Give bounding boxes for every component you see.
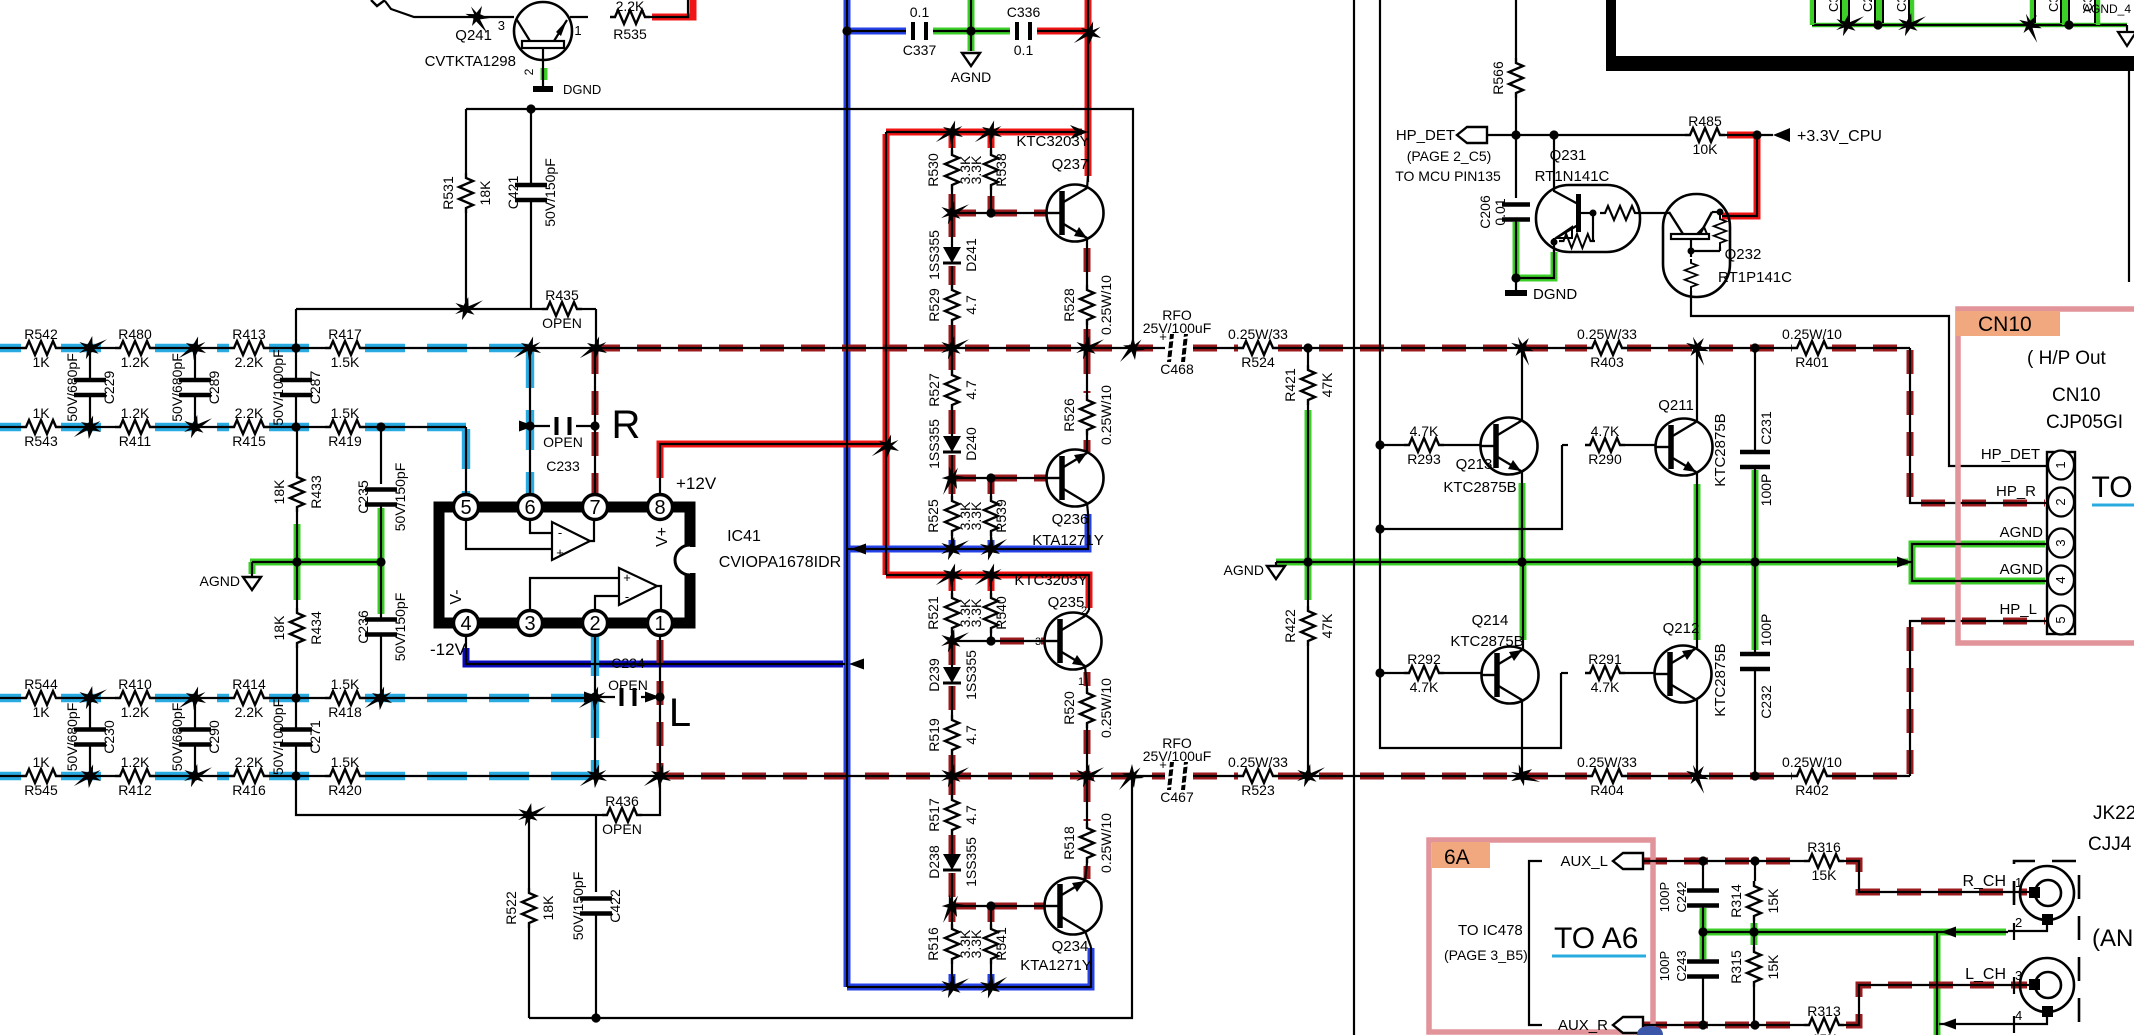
- wire Q235 emitter to R520: [1085, 666, 1087, 688]
- green highlight below R421: [1305, 410, 1312, 562]
- arrow R422 row4: [1293, 759, 1325, 792]
- red highlight rail top: [886, 129, 1082, 136]
- junction dots C233 on risers: [525, 421, 599, 430]
- svg-text:(AN: (AN: [2092, 925, 2133, 952]
- green highlight above C236: [378, 562, 385, 614]
- label KTC3203Y Q235: [1014, 572, 1087, 589]
- dark red dashed to L_CH: [1846, 985, 2027, 1025]
- wire base node Q236: [952, 477, 1046, 479]
- svg-text:CJP05GI: CJP05GI: [2046, 412, 2123, 433]
- svg-text:+: +: [1159, 329, 1167, 344]
- svg-text:R401: R401: [1795, 354, 1829, 370]
- wire rail y=109 R531/C421 to C468 column: [466, 109, 1133, 348]
- wire row1 R-channel top input: [0, 347, 530, 349]
- label TO IC478: [1458, 922, 1523, 939]
- resistor R313 15K: [1804, 1003, 1844, 1035]
- wire C289 column: [194, 348, 196, 427]
- label L big: [669, 691, 691, 735]
- label JK22: [2093, 803, 2134, 824]
- resistor R535 2.2K: [610, 0, 650, 42]
- resistor R520 0.25W/10: [1061, 678, 1114, 738]
- resistor R539 3.3K: [968, 496, 1009, 536]
- wire R292 to bus: [1380, 672, 1404, 674]
- CN10 orange label: [1956, 311, 2060, 336]
- svg-text:C230: C230: [101, 720, 117, 754]
- svg-text:2.2K: 2.2K: [235, 405, 264, 421]
- dark red stub R516: [949, 908, 956, 922]
- green highlight AGND y=562: [1276, 559, 1908, 566]
- green highlight on Q241 pin2 wire: [541, 68, 548, 80]
- svg-text:TO IC478: TO IC478: [1458, 922, 1523, 939]
- capacitor C231 100P: [1740, 452, 1770, 467]
- wire row3 L-channel top input: [0, 697, 595, 699]
- svg-text:8: 8: [654, 497, 665, 519]
- wire R434 column from green: [296, 562, 298, 608]
- svg-text:2: 2: [589, 613, 600, 635]
- svg-text:50V/680pF: 50V/680pF: [169, 353, 185, 422]
- svg-text:AGND_4: AGND_4: [2083, 2, 2131, 16]
- svg-text:RT1N141C: RT1N141C: [1535, 168, 1610, 185]
- op-amp A triangle: [552, 522, 590, 560]
- svg-text:R543: R543: [24, 433, 58, 449]
- wire C242 column: [1702, 861, 1704, 890]
- resistor R542 1K: [21, 326, 61, 370]
- wire R530 bottom to base node: [951, 190, 953, 213]
- wire Q212 collector to row4: [1696, 700, 1698, 776]
- svg-text:R526: R526: [1061, 398, 1077, 432]
- junction C232 row4: [1750, 771, 1759, 780]
- wire 6A bracket: [1529, 861, 1542, 1025]
- green highlight cap bus: [1812, 23, 2127, 28]
- svg-text:R522: R522: [503, 891, 519, 925]
- dark red dashed R520 bottom: [1084, 730, 1091, 774]
- wire R516 bottom to blue rail: [951, 964, 953, 987]
- wire link y=529: [1380, 445, 1562, 529]
- capacitor C235 50V/150pF: [355, 463, 408, 532]
- capacitor C232 100P: [1740, 654, 1770, 669]
- wire crossing arrow at x=477: [462, 2, 494, 33]
- dark red stub Q236 coll: [1084, 440, 1091, 452]
- wire vertical x=1354 full height: [1353, 0, 1355, 1035]
- wire row2 R-channel bottom input highlight: [0, 423, 466, 431]
- svg-text:0.25W/10: 0.25W/10: [1098, 813, 1114, 873]
- wire pin6 to op-amp A - input: [530, 520, 552, 533]
- resistor R411 1.2K: [115, 405, 155, 449]
- wire R517 column: [951, 776, 953, 906]
- svg-text:0.25W/10: 0.25W/10: [1098, 385, 1114, 445]
- resistor R526 0.25W/10: [1061, 385, 1114, 445]
- svg-text:R293: R293: [1407, 451, 1441, 467]
- green R315 top: [1751, 934, 1758, 945]
- svg-text:Q234: Q234: [1052, 938, 1089, 955]
- transistor Q212 KTC2875B: [1655, 646, 1712, 703]
- label 100P C231: [1758, 474, 1774, 507]
- wire Q236 emitter to blue: [1087, 503, 1088, 513]
- cyan dashed riser pin5: [462, 429, 470, 503]
- wire C422 column: [595, 815, 597, 892]
- label pin1 R_CH: [2015, 875, 2022, 890]
- resistor R541 3.3K: [968, 924, 1009, 964]
- arrow rail-column junction row1: [1120, 336, 1145, 362]
- transistor Q231 RT1N141C: [1536, 135, 1640, 252]
- svg-text:R_CH: R_CH: [1962, 873, 2006, 890]
- arrow pin4 into green riser: [1941, 1019, 1956, 1030]
- wire R434 bottom to row3: [296, 648, 298, 698]
- diode D239 1SS355: [926, 650, 979, 700]
- svg-text:50V/150pF: 50V/150pF: [392, 463, 408, 532]
- svg-text:6: 6: [524, 497, 535, 519]
- svg-text:+12V: +12V: [676, 474, 717, 493]
- wire AGND elbow: [251, 562, 253, 576]
- resistor R404 0.25W/33: [1577, 754, 1637, 798]
- arrow rail-column junction row4: [1119, 764, 1144, 790]
- dark red stub R530 bottom: [949, 194, 956, 211]
- svg-text:+3.3V_CPU: +3.3V_CPU: [1797, 128, 1882, 145]
- svg-text:50V/1000pF: 50V/1000pF: [270, 349, 286, 425]
- wire Q237 collector: [1087, 176, 1088, 188]
- svg-text:0.1: 0.1: [1014, 42, 1034, 58]
- wire R527 column: [951, 348, 953, 478]
- svg-text:OPEN: OPEN: [608, 677, 648, 693]
- svg-text:CN10: CN10: [1978, 313, 2032, 336]
- label Q237: [1052, 156, 1089, 173]
- label AGND top middle: [951, 69, 991, 85]
- arrow D239 column row4: [937, 759, 969, 792]
- svg-text:R541: R541: [993, 927, 1009, 961]
- wire jack L_CH pin4: [1939, 1016, 2047, 1024]
- wire HP_DET net: [1487, 134, 1685, 136]
- svg-text:2.2K: 2.2K: [235, 754, 264, 770]
- pin tick L_CH 4: [2013, 1016, 2015, 1033]
- resistor R517 4.7: [926, 795, 979, 835]
- capacitor C337 0.1: [903, 4, 937, 58]
- junction dots rows cap columns: [85, 343, 300, 780]
- capacitor C467 RFO 25V/100uF: [1143, 735, 1212, 805]
- resistor R480 1.2K: [115, 326, 155, 370]
- arrows red rail stubs: [936, 117, 1006, 149]
- svg-text:HP_DET: HP_DET: [1981, 446, 2040, 463]
- dark red stub R541: [988, 908, 995, 922]
- wire red rail L stage: [886, 575, 1089, 610]
- arrow C234 left: [584, 692, 599, 703]
- wire Q214 collector to row4: [1521, 701, 1523, 776]
- wire C206 column: [1515, 135, 1517, 198]
- dark red dashed pin1 riser: [657, 640, 664, 776]
- wire C233 right link: [576, 425, 595, 427]
- resistor row3 R410 1.2K: [115, 676, 155, 720]
- green highlight AGND riser: [968, 0, 975, 51]
- label KTC2875B Q214: [1450, 633, 1523, 650]
- svg-text:R539: R539: [993, 499, 1009, 533]
- svg-text:(PAGE 3_B5): (PAGE 3_B5): [1444, 947, 1528, 963]
- wire AGND elbow mid: [1275, 562, 1277, 565]
- green highlight Q213 emitter: [1519, 483, 1526, 560]
- label Q232: [1725, 246, 1762, 263]
- label R_CH: [1962, 873, 2006, 890]
- pin tick R_CH: [2013, 884, 2015, 901]
- wire blue net vertical from C337 down to Q236/Q234 rail: [846, 0, 848, 987]
- dark red dashed R526 column: [1084, 350, 1091, 393]
- label C231 rotated: [1758, 411, 1774, 445]
- svg-text:2: 2: [522, 68, 536, 75]
- wire jack R_CH pin2: [2008, 924, 2047, 931]
- svg-text:1: 1: [1078, 676, 1084, 688]
- label V- rotated near pin4: [448, 589, 465, 604]
- wire C243 bottom: [1702, 977, 1704, 1025]
- capacitor C289 50V/680pF: [169, 353, 222, 422]
- svg-text:R436: R436: [605, 793, 639, 809]
- capacitor C271 50V/1000pF: [270, 699, 323, 775]
- wire from top-left to Q241 pin 3: [385, 1, 514, 17]
- wire +12V pin8: [660, 444, 888, 495]
- wire Q237 emitter to R528: [1086, 238, 1088, 285]
- arrow Q214 collector row4: [1506, 759, 1540, 793]
- svg-text:C468: C468: [1160, 361, 1194, 377]
- svg-text:1K: 1K: [32, 754, 50, 770]
- svg-text:KTC2875B: KTC2875B: [1443, 479, 1516, 496]
- wire C234 right link: [641, 696, 660, 698]
- svg-text:JK22: JK22: [2093, 803, 2134, 824]
- svg-text:IC41: IC41: [727, 528, 761, 545]
- green highlight bracket: [1912, 544, 2045, 581]
- svg-text:R316: R316: [1807, 839, 1841, 855]
- resistor R516 3.3K: [925, 924, 973, 964]
- wire R528 to row1: [1086, 325, 1088, 348]
- wire R522 column: [528, 815, 530, 888]
- ground AGND mid right: [1224, 562, 1285, 579]
- dark red dashed R518 column: [1084, 778, 1091, 821]
- svg-text:0.25W/33: 0.25W/33: [1228, 326, 1288, 342]
- green riser hl: [1934, 934, 1941, 1035]
- svg-text:3.3K: 3.3K: [968, 929, 984, 958]
- svg-text:47K: 47K: [1319, 613, 1335, 639]
- label C233: [546, 458, 580, 474]
- wire Q211 collector to row1: [1696, 348, 1698, 422]
- svg-text:AGND: AGND: [951, 69, 991, 85]
- svg-text:C231: C231: [1758, 411, 1774, 445]
- svg-text:1K: 1K: [32, 405, 50, 421]
- arrow base node Q236: [936, 463, 967, 495]
- svg-text:KTC3203Y: KTC3203Y: [1014, 572, 1087, 589]
- wire bottom rail y=1018 to C467 column: [529, 776, 1132, 1018]
- junction dots C234 risers: [590, 692, 664, 701]
- label AGND pin3: [2000, 524, 2044, 541]
- pin3 Q235: [1035, 636, 1041, 648]
- svg-text:C290: C290: [206, 720, 222, 754]
- pin tick R_CH 2: [2013, 923, 2015, 940]
- wire row4 L-channel bottom input highlight: [0, 772, 595, 780]
- dark red dashed base Q235: [1000, 638, 1044, 645]
- svg-text:C229: C229: [101, 371, 117, 405]
- svg-text:C422: C422: [607, 889, 623, 923]
- arrows at row4 riser junctions: [580, 761, 675, 793]
- wire crossing arrow at R522 top: [514, 798, 546, 831]
- label C28 cap box: [1860, 0, 1875, 12]
- label 0.01 C206: [1492, 198, 1508, 225]
- label RT1N141C: [1535, 168, 1610, 185]
- arrow -12V into blue riser: [849, 659, 864, 670]
- blue highlight C337 left: [849, 28, 906, 35]
- arrow D241 column row1: [937, 331, 969, 364]
- wire op-amp B output to pin1: [657, 586, 661, 610]
- arrow row3 end junction: [579, 683, 610, 715]
- svg-text:0.25W/10: 0.25W/10: [1098, 275, 1114, 335]
- label TO A6 link: [1552, 922, 1646, 956]
- svg-text:Q211: Q211: [1658, 397, 1694, 414]
- green highlight below C235: [378, 508, 385, 562]
- wire C243 top green: [1702, 932, 1704, 961]
- svg-text:3: 3: [1035, 636, 1041, 648]
- label CJP05GI: [2046, 412, 2123, 433]
- label V+ rotated near pin8: [654, 527, 671, 547]
- capacitor C243 100P: [1687, 962, 1719, 977]
- wire R314 bottom green: [1753, 921, 1755, 932]
- svg-text:KTC2875B: KTC2875B: [1450, 633, 1523, 650]
- svg-text:R540: R540: [993, 596, 1009, 630]
- label Q236: [1052, 511, 1089, 528]
- label TO right edge: [2091, 471, 2134, 505]
- wire base node Q234: [952, 905, 1044, 907]
- wire R566 top: [1515, 0, 1517, 58]
- wire red rail top R stage: [886, 131, 1086, 133]
- wire pin1 riser to row4: [659, 636, 661, 776]
- svg-text:R519: R519: [926, 718, 942, 752]
- dark red stub Q234 coll: [1084, 866, 1091, 879]
- resistor R421 47K: [1282, 365, 1335, 405]
- blue stub R539: [988, 540, 995, 549]
- wire R566 bottom to HP_DET: [1515, 98, 1517, 135]
- arrows red rail L stubs: [936, 560, 1006, 592]
- dark red dashed base Q236: [952, 475, 1046, 482]
- arrow row1 pin7 junction: [580, 333, 611, 365]
- arrow Q211 collector row1: [1681, 332, 1715, 366]
- wire R313 to L_CH: [1844, 985, 2029, 1025]
- label KTC3203Y Q237: [1016, 133, 1089, 150]
- svg-text:AGND: AGND: [1224, 562, 1264, 578]
- svg-text:AGND: AGND: [200, 573, 240, 589]
- wire crossing arrow at R531 bottom: [451, 292, 483, 325]
- svg-text:50V/150pF: 50V/150pF: [392, 593, 408, 662]
- wire R422 top from green: [1307, 562, 1309, 606]
- wire C233 left link: [530, 425, 550, 427]
- resistor R434 18K: [271, 608, 324, 648]
- blue stub R541: [988, 974, 995, 985]
- resistor R292 4.7K: [1404, 651, 1444, 695]
- label ANALOG: [2092, 925, 2133, 952]
- wire base node to Q237: [952, 212, 1046, 214]
- wire C422 bottom: [595, 914, 597, 1018]
- svg-text:4.7: 4.7: [963, 725, 979, 745]
- junction C422 bottom: [591, 1013, 600, 1022]
- svg-text:3: 3: [524, 613, 535, 635]
- svg-text:R485: R485: [1688, 113, 1722, 129]
- dark red dashed base Q234: [952, 903, 1044, 910]
- svg-text:18K: 18K: [540, 895, 556, 921]
- wire Q234 emitter to blue rail: [1085, 931, 1091, 947]
- svg-text:18K: 18K: [271, 615, 287, 641]
- wire R520 to row4: [1086, 728, 1088, 776]
- wire R316 to R_CH: [1844, 861, 2014, 892]
- red highlight x=886: [883, 134, 890, 575]
- CN10 pink box outline: [1958, 309, 2134, 643]
- svg-text:-: -: [558, 525, 562, 540]
- green highlight Q212 emitter: [1694, 564, 1701, 640]
- dots on green cap bus: [1873, 20, 2073, 29]
- svg-text:1SS355: 1SS355: [963, 837, 979, 887]
- svg-text:Q213: Q213: [1456, 456, 1493, 473]
- 6A orange label: [1432, 842, 1490, 869]
- wire row4 to y=815 rail: [296, 776, 596, 815]
- svg-text:0.25W/10: 0.25W/10: [1782, 326, 1842, 342]
- wire row4 L-channel bottom input: [0, 775, 595, 777]
- wire C290 column: [194, 698, 196, 776]
- svg-text:R414: R414: [232, 676, 266, 692]
- svg-text:1: 1: [574, 23, 581, 38]
- wire R421 column top: [1307, 348, 1309, 365]
- wire C336 to red riser: [1037, 30, 1088, 32]
- dark red dashed Q235 emitter: [1084, 672, 1091, 686]
- arrow base node Q234: [936, 891, 967, 923]
- svg-text:1SS355: 1SS355: [926, 419, 942, 469]
- wire green bracket to AGND pins: [1912, 544, 2047, 581]
- arrow R528 row1: [1072, 331, 1104, 364]
- green highlight above R434: [294, 562, 301, 600]
- label Q214: [1472, 612, 1509, 629]
- wire R539 stub: [990, 478, 992, 496]
- svg-text:R435: R435: [545, 287, 579, 303]
- label Q212: [1663, 620, 1700, 637]
- wire R_CH pin wire: [2014, 891, 2029, 893]
- wire crossing arrow at red riser: [1074, 18, 1105, 50]
- svg-text:Q237: Q237: [1052, 156, 1089, 173]
- svg-text:D239: D239: [926, 658, 942, 692]
- label C31 cap box: [2046, 0, 2061, 12]
- navy highlight -12V: [466, 648, 843, 664]
- op-amp B triangle: [619, 568, 657, 605]
- svg-text:V+: V+: [654, 527, 671, 547]
- svg-text:3.3K: 3.3K: [968, 501, 984, 530]
- wire row4 plain black part: [595, 775, 660, 777]
- arrows on green cap bus: [1832, 8, 2048, 43]
- label CVIOPA1678IDR: [719, 554, 841, 571]
- svg-text:KTA1271Y: KTA1271Y: [1032, 532, 1103, 549]
- label PAGE 3_B5: [1444, 947, 1528, 963]
- resistor R538 3.3K: [968, 150, 1009, 190]
- resistor R316 15K: [1804, 839, 1844, 883]
- ground AGND left middle: [200, 573, 261, 590]
- dark red dashed HP_L riser: [1910, 621, 2045, 774]
- svg-text:R524: R524: [1241, 354, 1275, 370]
- green C242 bottom: [1700, 908, 1707, 932]
- svg-text:Q235: Q235: [1048, 594, 1085, 611]
- wire D239 column highlight: [949, 641, 956, 776]
- label C242: [1674, 881, 1689, 912]
- svg-text:18K: 18K: [271, 479, 287, 505]
- wire C287 column: [295, 348, 297, 427]
- svg-text:0.25W/10: 0.25W/10: [1098, 678, 1114, 738]
- wire R521 stub: [951, 575, 953, 593]
- arrow Q213 collector row1: [1506, 332, 1540, 366]
- svg-text:R422: R422: [1282, 609, 1298, 643]
- resistor R291 4.7K: [1585, 651, 1625, 695]
- green highlight C231 bottom: [1752, 470, 1759, 560]
- arrow green into bracket: [1897, 557, 1912, 568]
- svg-text:-: -: [625, 589, 629, 604]
- label Q213: [1456, 456, 1493, 473]
- resistor R402 0.25W/10: [1782, 754, 1842, 798]
- resistor R315 15K: [1728, 947, 1781, 987]
- wire green AGND net y=562: [1276, 561, 1912, 563]
